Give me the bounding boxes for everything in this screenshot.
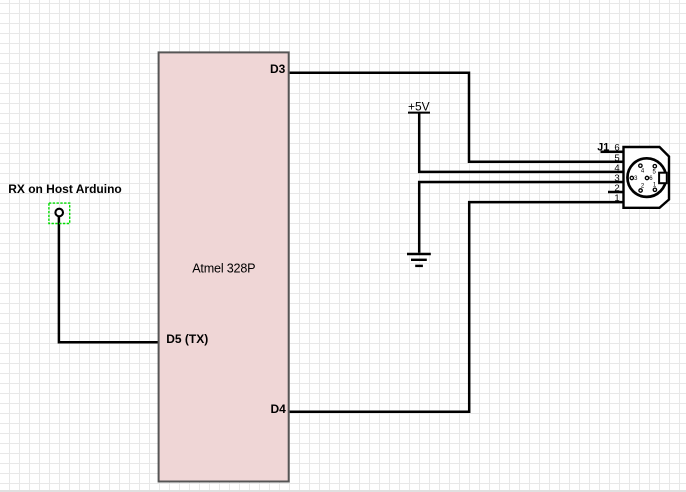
- J1 pin 2 stub: [608, 191, 625, 194]
- node RX on Host Arduino selection box: [49, 203, 70, 223]
- J1 pin 6 stub: [601, 150, 625, 153]
- J1 face pin 5: [653, 165, 657, 176]
- svg-text:RX on Host Arduino: RX on Host Arduino: [8, 182, 122, 196]
- J1 key notch: [659, 173, 667, 184]
- power +5V symbol: [408, 112, 430, 114]
- J1 face pin 6: [645, 176, 653, 182]
- wire RX node to D5 (TX): [59, 216, 159, 342]
- J1 face pin 4: [639, 164, 645, 175]
- svg-text:D5 (TX): D5 (TX): [166, 332, 208, 346]
- svg-text:Atmel 328P: Atmel 328P: [192, 261, 255, 275]
- J1 face pin 3: [630, 176, 638, 182]
- J1 face pin 2: [639, 184, 645, 193]
- wire D3 to J1 pin 5: [289, 73, 625, 162]
- svg-text:+5V: +5V: [408, 100, 430, 114]
- wire D4 to J1 pin 1: [289, 202, 625, 412]
- svg-text:D4: D4: [270, 402, 286, 416]
- ground: [407, 254, 431, 266]
- wire ground to J1 pin 3: [419, 182, 624, 253]
- IC U1 Atmel 328P body: [159, 52, 289, 481]
- J1 face pin 1: [653, 182, 657, 191]
- svg-text:1: 1: [614, 193, 619, 204]
- connector J1 body (mini-DIN 6): [624, 147, 670, 208]
- J1 face circle: [627, 158, 666, 197]
- svg-text:J1: J1: [597, 142, 609, 154]
- node RX on Host Arduino terminal: [55, 209, 63, 217]
- wire +5V to J1 pin 4: [419, 114, 624, 172]
- svg-text:D3: D3: [270, 62, 286, 76]
- bottom edge line: [0, 490, 686, 492]
